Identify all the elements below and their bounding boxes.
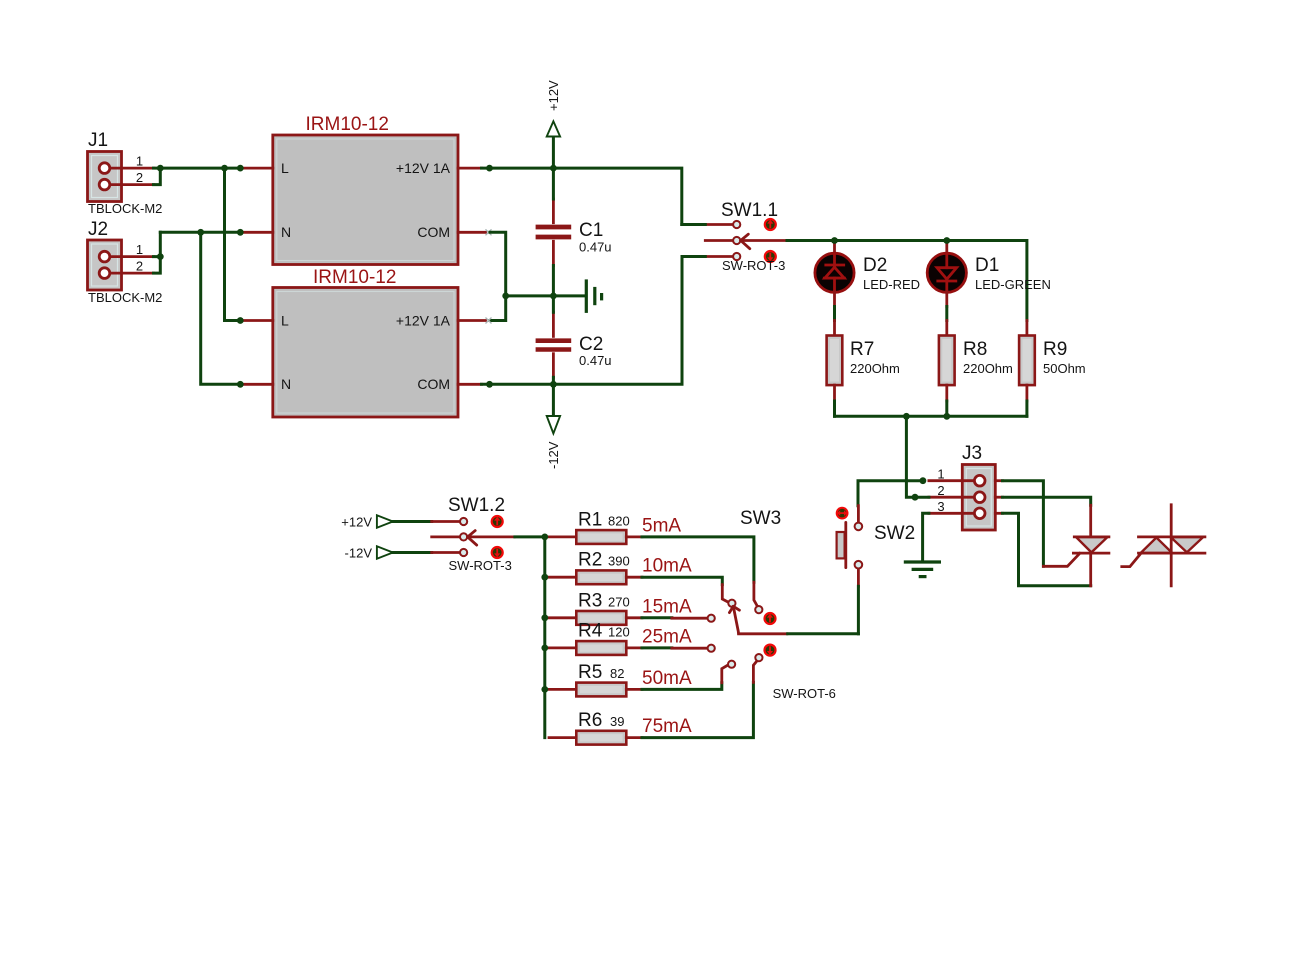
ground symbol near J3 [905, 562, 939, 577]
wire R8 to LED rail [945, 401, 948, 416]
svg-text:-12V: -12V [345, 546, 373, 561]
SW3 down button [763, 644, 776, 657]
svg-text:25mA: 25mA [642, 626, 692, 647]
module2 +12V pin stub [458, 319, 486, 322]
SW2 actuate button [836, 507, 849, 520]
wire J2 pin2 to pin1 junction [154, 257, 161, 274]
wire -12V tag to SW1.2 throw3 [393, 551, 432, 554]
resistor R6 [549, 710, 692, 745]
J3 pin 3 lead [929, 512, 974, 515]
svg-text:L: L [281, 313, 289, 329]
wire LED bottom rail [835, 415, 1027, 418]
J1 pin 2 lead [110, 183, 154, 186]
power symbol -12V arrow [547, 384, 560, 433]
svg-text:N: N [281, 376, 291, 392]
svg-text:220Ohm: 220Ohm [850, 361, 900, 376]
wire R1 to SW3 throw1 [642, 537, 754, 582]
svg-text:-12V: -12V [546, 441, 561, 469]
J3 pin 3 circle [974, 508, 985, 519]
wire mid rail to C2 [552, 296, 555, 312]
J1 pin 1 circle [99, 163, 110, 174]
wire SW3 common to SW2 [788, 632, 859, 635]
node module2 N pin [237, 381, 244, 388]
LED D2 [815, 241, 920, 307]
SW1.1 up button [764, 218, 777, 231]
module2 COM pin stub [458, 383, 482, 386]
svg-text:15mA: 15mA [642, 596, 692, 617]
wire GND mid rail to ground [506, 294, 584, 297]
resistor R3 [549, 590, 692, 625]
svg-text:SW1.2: SW1.2 [448, 495, 505, 516]
node D1 anode branch [943, 237, 950, 244]
svg-text:0.47u: 0.47u [579, 353, 612, 368]
SW1.2 contact circles [460, 518, 467, 525]
node J1 junction [157, 165, 164, 172]
wire SW1.1 common to LED rail [787, 241, 1027, 321]
wire rail down to J3 pin2 row [906, 416, 915, 497]
J1 pin 1 lead [110, 167, 154, 170]
module1 L pin stub [240, 167, 272, 170]
SW2 top lead [857, 506, 860, 522]
wire C1 to mid rail [552, 266, 555, 296]
svg-text:5mA: 5mA [642, 516, 681, 537]
SW2 bottom lead [857, 569, 860, 586]
wire J2 junction up to N row [154, 232, 161, 256]
thyristor (SCR) symbol [1043, 505, 1109, 586]
SW2 button rectangle [837, 532, 845, 558]
svg-text:J3: J3 [962, 443, 982, 464]
svg-text:IRM10-12: IRM10-12 [313, 267, 396, 288]
svg-text:120: 120 [608, 624, 630, 639]
power module 1 IRM10-12 [273, 114, 458, 265]
svg-text:75mA: 75mA [642, 716, 692, 737]
svg-text:50Ohm: 50Ohm [1043, 361, 1086, 376]
svg-text:R5: R5 [578, 662, 602, 683]
power module 2 IRM10-12 [273, 267, 458, 417]
svg-text:R9: R9 [1043, 339, 1067, 360]
svg-text:2: 2 [937, 483, 944, 498]
svg-text:39: 39 [610, 714, 624, 729]
wire D1 to R8 [945, 307, 948, 321]
net label -12V (arrow) [345, 546, 393, 561]
SW1.2 up button [491, 515, 504, 528]
SW1.2 throw 1 lead [432, 520, 460, 523]
svg-text:N: N [281, 224, 291, 240]
wire +12V rail to C1 [552, 168, 555, 199]
node module2 COM pin [486, 381, 493, 388]
SW1.2 wiper arm [468, 531, 515, 546]
capacitor C2 [536, 312, 612, 377]
wire J1 pin2 to pin1 junction [154, 168, 161, 185]
capacitor C1 [536, 199, 612, 266]
SW2 contact circles [855, 523, 863, 531]
wire SW2 top to J3 pin1 [858, 481, 923, 506]
node module2 L pin [237, 317, 244, 324]
J3 pin 1 circle [974, 475, 985, 486]
svg-text:LED-GREEN: LED-GREEN [975, 277, 1051, 292]
svg-text:TBLOCK-M2: TBLOCK-M2 [88, 201, 162, 216]
J3 right pin 2 stub [995, 496, 1002, 499]
svg-text:COM: COM [417, 224, 450, 240]
node N rail branch [197, 229, 204, 236]
svg-text:J2: J2 [88, 219, 108, 240]
wire J1 pin1 to module1 L [154, 167, 241, 170]
wire SW1.2 common to R bus [515, 535, 545, 538]
SW3 wiper arm [729, 606, 787, 634]
svg-text:SW1.1: SW1.1 [721, 200, 778, 221]
svg-text:R7: R7 [850, 339, 874, 360]
wire +12V tag to SW1.2 throw1 [393, 520, 432, 523]
SW3 throw 2 lead [722, 585, 728, 603]
svg-text:1: 1 [937, 467, 944, 482]
wire D2 to R7 [833, 307, 836, 321]
triac symbol (spare) [1122, 505, 1205, 586]
wire C2 to -12V rail [552, 377, 555, 384]
svg-text:50mA: 50mA [642, 668, 692, 689]
SW3 throw 6 lead [753, 661, 756, 682]
J3 right pin 3 stub [995, 512, 1002, 515]
svg-text:220Ohm: 220Ohm [963, 361, 1013, 376]
node J3 pin1 [920, 477, 927, 484]
node module1 L pin [237, 165, 244, 172]
module1 N pin stub [240, 231, 272, 234]
SW3 throw 1 lead [754, 582, 757, 606]
svg-text:1: 1 [136, 242, 143, 257]
SW1.2 throw 2 lead [432, 536, 460, 539]
svg-text:SW2: SW2 [874, 523, 915, 544]
wire R3 to throw3 lead [642, 616, 672, 619]
resistor R2 [549, 550, 692, 585]
SW1.1 throw 1 lead [705, 223, 733, 226]
svg-text:D1: D1 [975, 255, 999, 276]
svg-text:COM: COM [417, 376, 450, 392]
svg-text:J1: J1 [88, 130, 108, 151]
SW1.1 wiper arm [741, 234, 787, 249]
wire +12V rail [482, 168, 682, 224]
SW1.1 throw 2 lead [705, 239, 733, 242]
node GND mid rail branch [502, 293, 509, 300]
svg-text:SW-ROT-6: SW-ROT-6 [773, 686, 836, 701]
node module1 +12V pin [486, 165, 493, 172]
wire -12V rail [482, 257, 683, 385]
SW3 throw 4 lead [672, 647, 707, 650]
svg-text:0.47u: 0.47u [579, 240, 612, 255]
module2 N pin stub [240, 383, 272, 386]
wire N row to module1 N [160, 231, 240, 234]
node cap midpoint [550, 293, 557, 300]
junction dots layer [157, 165, 950, 693]
wire R2 to SW3 throw2 [642, 577, 722, 584]
SW1.2 throw 3 lead [432, 551, 460, 554]
wire R5 to SW3 throw5 [642, 683, 722, 690]
node module1 N pin [237, 229, 244, 236]
J3 pin 1 lead [929, 479, 974, 482]
node bus R5 [541, 686, 548, 693]
no-connect mark module1 COM [486, 229, 492, 235]
node bus R1 [541, 534, 548, 541]
svg-text:SW3: SW3 [740, 508, 781, 529]
no-connect mark module2 +12V [486, 318, 492, 324]
node bus R2 [541, 574, 548, 581]
svg-text:2: 2 [136, 259, 143, 274]
connector J2 [88, 219, 122, 290]
svg-text:+12V 1A: +12V 1A [396, 313, 451, 329]
svg-text:R8: R8 [963, 339, 987, 360]
resistor R8 [939, 321, 1013, 402]
svg-text:82: 82 [610, 666, 624, 681]
wire L rail down to module2 L [225, 168, 241, 320]
module1 COM pin stub [458, 231, 486, 234]
svg-text:TBLOCK-M2: TBLOCK-M2 [88, 290, 162, 305]
J3 pin 2 circle [974, 492, 985, 503]
connector J3 [962, 443, 995, 530]
svg-text:LED-RED: LED-RED [863, 277, 920, 292]
resistor R5 [549, 662, 692, 696]
node -12V cap branch [550, 381, 557, 388]
wire N rail down to module2 N [201, 232, 241, 384]
wire J3 pin2 joint [915, 496, 929, 499]
svg-text:820: 820 [608, 513, 630, 528]
svg-text:R1: R1 [578, 509, 602, 530]
wire R7 to LED rail [833, 401, 836, 416]
SW1.1 throw 3 lead [705, 255, 733, 258]
resistor R7 [827, 321, 900, 402]
svg-text:R3: R3 [578, 590, 602, 611]
module1 +12V pin stub [458, 167, 482, 170]
wire J3 pin3 to SCR cathode [1003, 513, 1091, 586]
node +12V cap branch [550, 165, 557, 172]
wire J3 pin1 to SCR gate [1003, 481, 1044, 567]
wire R9 to LED rail [1025, 401, 1028, 416]
svg-text:3: 3 [937, 499, 944, 514]
ground symbol (right-facing) [586, 281, 601, 311]
svg-text:1: 1 [136, 154, 143, 169]
wire R4 to throw4 lead [642, 646, 672, 649]
svg-text:R2: R2 [578, 550, 602, 571]
wire J3 pin2 to SCR anode [1003, 497, 1091, 505]
resistor R4 [549, 620, 692, 654]
SW1.1 contact circles [733, 221, 740, 228]
node bus R3 [541, 614, 548, 621]
wire SW2 to SW3 common [857, 586, 860, 634]
J3 pin 2 lead [929, 496, 974, 499]
J2 pin 2 lead [110, 272, 154, 275]
resistor R9 [1019, 321, 1086, 402]
svg-text:390: 390 [608, 554, 630, 569]
wire +12V to SW1.1 throw1 [682, 223, 706, 226]
node J3 pin2 [912, 494, 919, 501]
svg-text:C2: C2 [579, 334, 603, 355]
SW1.2 down button [491, 546, 504, 559]
svg-text:L: L [281, 160, 289, 176]
resistor R1 [549, 509, 681, 543]
svg-text:+12V: +12V [546, 80, 561, 111]
wire resistor bus vertical [543, 537, 546, 738]
LED D1 [927, 241, 1051, 307]
wire -12V to SW1.1 throw3 [682, 255, 705, 258]
node rail to J3 branch [903, 413, 910, 420]
svg-text:10mA: 10mA [642, 556, 692, 577]
SW3 contact circles [755, 606, 762, 613]
node L rail branch [221, 165, 228, 172]
power symbol +12V arrow [547, 121, 560, 168]
SW3 throw 3 lead [672, 617, 707, 620]
svg-text:C1: C1 [579, 220, 603, 241]
J2 pin 1 lead [110, 255, 154, 258]
svg-text:270: 270 [608, 594, 630, 609]
node D2 anode branch [831, 237, 838, 244]
SW3 throw 5 lead [722, 665, 728, 683]
SW2 moving bar [844, 522, 847, 567]
J2 pin 2 circle [99, 268, 110, 279]
svg-text:R6: R6 [578, 710, 602, 731]
net label +12V (arrow) [341, 515, 393, 530]
wire J3 pin3 to ground [923, 513, 929, 562]
svg-text:D2: D2 [863, 255, 887, 276]
svg-text:+12V: +12V [341, 515, 372, 530]
module2 L pin stub [240, 319, 272, 322]
node bus R4 [541, 645, 548, 652]
svg-text:IRM10-12: IRM10-12 [306, 114, 389, 135]
svg-text:R4: R4 [578, 620, 603, 641]
svg-text:SW-ROT-3: SW-ROT-3 [449, 558, 512, 573]
svg-text:+12V 1A: +12V 1A [396, 160, 451, 176]
J3 right pin 1 stub [995, 479, 1002, 482]
J2 pin 1 circle [99, 251, 110, 262]
connector J1 [88, 130, 122, 202]
SW3 up button [763, 612, 776, 625]
J1 pin 2 circle [99, 179, 110, 190]
wire COM1 to GND mid rail [490, 232, 506, 320]
SW1.1 down button [764, 250, 777, 263]
svg-text:2: 2 [136, 170, 143, 185]
svg-text:SW-ROT-3: SW-ROT-3 [722, 258, 785, 273]
node J2 junction [157, 253, 164, 260]
wire R6 to SW3 throw6 [642, 682, 753, 737]
node R8 rail joint [943, 413, 950, 420]
